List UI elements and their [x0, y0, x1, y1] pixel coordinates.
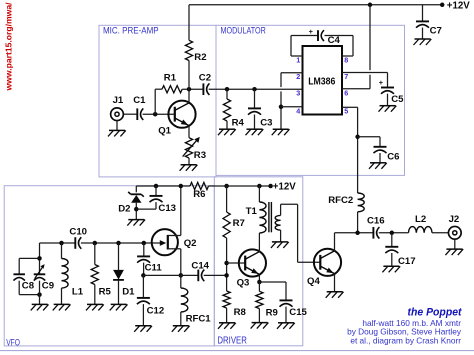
resistor R8 [223, 291, 230, 308]
label C13 [158, 203, 176, 214]
capacitor C4 (polarized) [318, 30, 324, 41]
ground Q4 [326, 292, 344, 298]
transistor Q2 (JFET) [152, 229, 178, 255]
wire C17 to ground [391, 253, 393, 266]
transformer T1 secondary [275, 215, 280, 230]
ground R3 [180, 165, 198, 171]
wire C9 branch drop [39, 243, 41, 274]
svg-text:Q3: Q3 [237, 278, 250, 289]
node C17 tap [390, 231, 395, 236]
capacitor C8 [13, 274, 25, 280]
ground R4 [218, 129, 236, 135]
resistor R2 [185, 40, 192, 60]
section label DRIVER [217, 336, 247, 347]
svg-text:R1: R1 [164, 73, 177, 84]
capacitor C15 [280, 300, 293, 306]
svg-text:C7: C7 [430, 25, 442, 36]
pin 8 number [344, 55, 348, 64]
ground J1 [108, 130, 126, 136]
wire Q4 collector up [334, 233, 336, 251]
node C13 rail tap [154, 184, 159, 189]
label R7 [233, 218, 245, 229]
label C12 [147, 305, 165, 316]
label D2 [118, 203, 130, 214]
ground RFC1 [172, 326, 190, 332]
svg-text:C4: C4 [328, 35, 341, 46]
svg-text:+: + [309, 27, 314, 36]
wire R8 to ground [226, 308, 228, 323]
wire R9 to ground [258, 309, 260, 323]
svg-text:D1: D1 [122, 287, 135, 298]
label C10 [69, 227, 87, 238]
inductor RFC1 [181, 288, 188, 312]
capacitor C6 [374, 147, 387, 153]
wire VFO top rail [136, 185, 190, 187]
capacitor C7 [416, 21, 429, 27]
svg-text:C13: C13 [158, 203, 176, 214]
wire T1 primary top stub [258, 186, 260, 202]
svg-text:R6: R6 [193, 189, 205, 200]
ground D2 [127, 220, 145, 226]
ground L1 [53, 304, 71, 310]
svg-text:+: + [379, 78, 384, 87]
capacitor C2 [203, 83, 209, 95]
svg-text:C16: C16 [367, 215, 385, 226]
pin 4 number [296, 106, 300, 115]
capacitor C11 [137, 256, 150, 262]
node +12V driver terminal [268, 184, 273, 189]
ground C15 [277, 323, 295, 329]
node C11/C12 tap [141, 273, 146, 278]
wire J1 to C1 [123, 113, 137, 115]
url text www.part15.org/mwa/ [4, 2, 14, 92]
svg-text:J2: J2 [449, 214, 460, 225]
capacitor C12 [137, 298, 150, 304]
ground C17 [382, 266, 400, 272]
svg-text:MODULATOR: MODULATOR [221, 25, 267, 35]
wire Q1 emitter to R3 [188, 126, 190, 138]
label L2 [415, 214, 426, 225]
wire rail R6 to +12V [209, 185, 271, 187]
wire C5 to ground [387, 94, 389, 106]
svg-text:C3: C3 [260, 117, 272, 128]
wire Q4 emitter to ground [334, 274, 336, 292]
transformer T1 core [269, 202, 272, 232]
wire pin2 stub [281, 72, 303, 74]
resistor R9 [256, 291, 263, 308]
wire pin5 stub [342, 106, 358, 108]
wire C9 to ground [39, 281, 41, 305]
ground pins 2 and 4 [272, 129, 290, 135]
wire T1 secondary top to Q4 base [281, 204, 321, 262]
node Q2 drain rail tap [179, 184, 184, 189]
node Q1 base junction [153, 112, 158, 117]
svg-text:RFC2: RFC2 [328, 195, 353, 206]
resistor R4 [223, 99, 230, 121]
svg-text:C15: C15 [289, 307, 307, 318]
pin 3 number [296, 89, 300, 98]
node C14 junction [224, 273, 229, 278]
svg-text:2: 2 [296, 72, 300, 81]
label C4 plus [309, 27, 314, 36]
svg-text:VFO: VFO [6, 337, 20, 348]
ground T1 secondary [271, 242, 289, 248]
svg-text:Q2: Q2 [184, 238, 197, 249]
transformer T1 primary [259, 202, 266, 233]
label C6 [387, 151, 399, 162]
resistor R1 [162, 86, 182, 93]
wire RFC2 bottom stub [357, 212, 359, 233]
wire C6 to ground [379, 153, 381, 163]
wire RFC1 top stub [180, 275, 182, 288]
wire T1 secondary bottom stub [280, 230, 282, 242]
label R6 [193, 189, 205, 200]
node D2/C13 ground junction [134, 207, 139, 212]
transistor Q1 [168, 101, 195, 128]
connector J1 [111, 108, 124, 121]
ground R9 [251, 323, 269, 329]
wire C13 bottom stub [155, 202, 157, 209]
wire pin4 stub [281, 106, 303, 108]
svg-text:C8: C8 [22, 281, 35, 292]
wire C3 top stub [254, 89, 256, 108]
resistor R6 [190, 182, 209, 189]
svg-text:C12: C12 [147, 305, 165, 316]
label +12V top [447, 1, 470, 12]
label RFC2 [328, 195, 353, 206]
svg-text:DRIVER: DRIVER [217, 336, 247, 347]
wire pin6 stub [342, 88, 370, 90]
label R4 [232, 117, 245, 128]
wire R7 top stub [226, 186, 228, 212]
wire C4 to pin8 [325, 36, 354, 57]
label R1 [164, 73, 177, 84]
node RFC2 output junction [355, 231, 360, 236]
svg-text:1: 1 [296, 55, 300, 64]
capacitor C16 [373, 227, 379, 239]
svg-text:J1: J1 [113, 95, 124, 106]
wire RFC1 to ground [180, 312, 182, 326]
ground R8 [218, 323, 236, 329]
wire L1 to ground [61, 288, 63, 304]
label C5 plus [379, 78, 384, 87]
wire C17 top stub [391, 233, 393, 247]
wire C11 top stub [143, 243, 145, 256]
label C16 [367, 215, 385, 226]
section box MIC. PRE-AMP [99, 25, 216, 177]
wire pin2/pin4 ground drop (hops pin3 wire) [280, 73, 282, 129]
wire Q2 source stub [168, 248, 181, 250]
node D2 rail corner [135, 186, 137, 192]
label C14 [191, 261, 209, 272]
wire C8 top branch [19, 258, 39, 274]
node pin4 junction [279, 105, 284, 110]
svg-text:C14: C14 [191, 261, 209, 272]
label J1 [113, 95, 124, 106]
svg-text:Q1: Q1 [158, 125, 171, 136]
svg-text:C5: C5 [391, 94, 404, 105]
capacitor C5 (polarized) [381, 88, 394, 94]
svg-text:C17: C17 [398, 256, 416, 267]
wire +12V top rail [189, 4, 442, 6]
svg-text:T1: T1 [246, 206, 258, 217]
zener diode D2 [128, 192, 144, 203]
ground C12 [134, 326, 152, 332]
label +12V driver [273, 182, 296, 193]
label D1 [122, 287, 135, 298]
label Q3 [237, 278, 250, 289]
connector J2 [448, 226, 461, 239]
section box DRIVER [214, 177, 302, 346]
node +12V feed to pin6 [368, 3, 373, 8]
label Q4 [307, 276, 320, 287]
wire C12 top stub [142, 275, 144, 297]
svg-text:L1: L1 [72, 287, 84, 298]
label T1 [246, 206, 258, 217]
label R2 [194, 52, 206, 63]
svg-text:et al., diagram by Crash Knorr: et al., diagram by Crash Knorr [350, 335, 461, 345]
capacitor C1 [137, 108, 143, 120]
svg-text:the Poppet: the Poppet [408, 307, 463, 319]
wire C15 top stub [285, 282, 287, 300]
node R2/R1/C2 junction [187, 87, 192, 92]
svg-text:R7: R7 [233, 218, 245, 229]
ground D1 [110, 304, 128, 310]
svg-text:LM386: LM386 [308, 77, 335, 88]
wire R1 to R2 node [182, 88, 203, 90]
subtitle line 2 [347, 327, 462, 337]
resistor R7 [223, 212, 230, 238]
wire C13 top stub [155, 186, 157, 195]
wire C8 bottom branch [19, 281, 39, 295]
ground R5 [86, 304, 104, 310]
wire +12V drop to LM386 pin 6 (hops pin7 wire) [369, 5, 371, 89]
label Q2 [184, 238, 197, 249]
wire J1 ground stem [116, 121, 118, 131]
label RFC1 [186, 314, 212, 325]
svg-text:R4: R4 [232, 117, 245, 128]
label C8 [22, 281, 35, 292]
ground C8 C9 [31, 304, 49, 310]
wire VFO rail [40, 242, 76, 244]
wire R4 to ground [226, 121, 228, 129]
wire C14 to driver [204, 274, 227, 276]
node R5 top [93, 241, 98, 246]
transistor Q4 [314, 249, 341, 276]
svg-text:D2: D2 [118, 203, 130, 214]
resistor R3 (variable) [185, 138, 192, 158]
svg-text:R3: R3 [194, 150, 206, 161]
label Q1 [158, 125, 171, 136]
label R9 [266, 307, 278, 318]
svg-text:Q4: Q4 [307, 276, 320, 287]
svg-text:C11: C11 [145, 262, 163, 273]
node T1 rail tap [257, 184, 262, 189]
title the Poppet [408, 307, 463, 319]
wire R3 to ground [188, 158, 190, 165]
label C9 [42, 281, 54, 292]
inductor L1 [62, 259, 69, 289]
wire C11 to tap [143, 263, 145, 276]
section label MODULATOR [221, 25, 267, 35]
node C3 junction [252, 87, 257, 92]
svg-text:RFC1: RFC1 [186, 314, 212, 325]
page bottom rule [0, 350, 474, 352]
label R8 [234, 307, 247, 318]
svg-text:+12V: +12V [273, 182, 296, 193]
ground C5 [379, 106, 397, 112]
svg-text:C2: C2 [199, 73, 211, 84]
inductor RFC2 [358, 193, 365, 212]
label L1 [72, 287, 84, 298]
wire C15 to ground [285, 307, 287, 323]
wire Q3 emitter down [258, 275, 260, 282]
section label VFO [6, 337, 20, 348]
label C1 [133, 95, 146, 106]
pin 5 number [344, 106, 348, 115]
svg-text:C6: C6 [387, 151, 399, 162]
wire J2 ground stem [454, 239, 456, 249]
svg-text:R2: R2 [194, 52, 206, 63]
section label MIC. PRE-AMP [103, 25, 159, 35]
wire pin1 to C4 [291, 36, 318, 57]
wire R2 top stub [188, 5, 190, 41]
wire emitter to C15 [259, 281, 286, 283]
inductor L2 [409, 227, 432, 233]
node D1 top [116, 241, 121, 246]
diode D1 [113, 270, 124, 280]
wire R4 top stub [226, 89, 228, 99]
wire L2 to J2 [432, 232, 449, 234]
label C2 [199, 73, 211, 84]
ground C3 [246, 129, 264, 135]
wire R5 to ground [94, 285, 96, 305]
node Q3 base junction [224, 261, 229, 266]
pin 7 number [344, 72, 348, 81]
wire Q2 source down [180, 249, 182, 276]
label LM386 [308, 77, 335, 88]
node L1 top [59, 241, 64, 246]
wire source line left to C11/C12 tap [143, 274, 198, 276]
wire Q3 base wire [227, 262, 246, 264]
wire D2 to ground node [135, 203, 137, 220]
wire VFO rail right of C10 [81, 242, 164, 244]
svg-text:L2: L2 [415, 214, 426, 225]
wire D1 to ground [118, 280, 120, 304]
label C5 [391, 94, 404, 105]
wire C16 to L2 [379, 232, 409, 234]
section box VFO [4, 186, 214, 346]
op-amp U1 LM386 body [303, 46, 343, 115]
wire L1 top stub [61, 243, 63, 259]
wire C7 top stub [422, 5, 424, 21]
wire D1 top stub [118, 243, 120, 270]
pin 2 number [296, 72, 300, 81]
capacitor C14 [198, 270, 204, 282]
wire R5 top stub [94, 243, 96, 265]
svg-text:R9: R9 [266, 307, 278, 318]
wire Q2 drain up to rail [180, 186, 182, 236]
svg-text:C10: C10 [69, 227, 87, 238]
svg-text:C1: C1 [133, 95, 146, 106]
svg-text:C9: C9 [42, 281, 54, 292]
capacitor C13 [150, 196, 163, 202]
wire C6 branch [358, 137, 380, 147]
svg-text:MIC. PRE-AMP: MIC. PRE-AMP [103, 25, 159, 35]
resistor R5 [91, 265, 98, 285]
wire C3 to ground [254, 115, 256, 129]
label C7 [430, 25, 442, 36]
wire C13 bottom link [136, 208, 156, 210]
label R5 [99, 287, 112, 298]
svg-text:R8: R8 [234, 307, 247, 318]
svg-text:4: 4 [296, 106, 300, 115]
capacitor C9 (trimmer) [34, 274, 46, 280]
node Q2 source junction [179, 273, 184, 278]
label C15 [289, 307, 307, 318]
section box MODULATOR [216, 25, 405, 175]
wire C1 to Q1 base [143, 113, 175, 115]
wire C2 to LM386 pin3 [209, 88, 302, 90]
wire Q3 collector to T1 [258, 233, 260, 252]
wire C7 bottom stub [422, 28, 424, 39]
capacitor C10 [75, 237, 81, 249]
ground J2 [445, 249, 463, 255]
wire output line to C16 [335, 232, 374, 234]
node C6 tap [355, 135, 360, 140]
wire pin7 to C5 [342, 73, 388, 88]
node C11 top [142, 241, 147, 246]
svg-text:7: 7 [344, 72, 348, 81]
wire pin5 drop to RFC2 [357, 107, 359, 193]
wire R9 top stub [258, 282, 260, 291]
label C4 [328, 35, 341, 46]
node R7 rail tap [224, 184, 229, 189]
wire R7 to R8 [226, 238, 228, 291]
svg-text:8: 8 [344, 55, 348, 64]
pin 1 number [296, 55, 300, 64]
arrow R3 wiper [183, 137, 200, 157]
subtitle line 1 [362, 318, 461, 328]
label J2 [449, 214, 460, 225]
wire C12 to ground [142, 304, 144, 326]
node C8 bottom tap [37, 292, 42, 297]
svg-text:3: 3 [296, 89, 300, 98]
node +12V terminal top [440, 3, 445, 8]
node C8 top tap [37, 256, 42, 261]
capacitor C17 [385, 247, 398, 253]
wire R1 left stub [155, 88, 162, 90]
wire R2 to Q1 collector [188, 61, 190, 104]
wire base junction up to R1 [154, 89, 156, 114]
transistor Q3 [239, 249, 266, 276]
label C17 [398, 256, 416, 267]
pin 6 number [344, 89, 348, 98]
svg-text:www.part15.org/mwa/: www.part15.org/mwa/ [4, 2, 14, 92]
ground C7 [414, 39, 432, 45]
label C3 [260, 117, 272, 128]
svg-text:R5: R5 [99, 287, 112, 298]
ground C6 [369, 163, 387, 169]
label C11 [145, 262, 163, 273]
arrow C9 trimmer [35, 264, 45, 279]
subtitle line 3 [350, 335, 461, 345]
node R4 junction [225, 87, 230, 92]
capacitor C3 [248, 108, 261, 114]
svg-text:+12V: +12V [447, 1, 470, 12]
label R3 [194, 150, 206, 161]
wire Q2 drain stub [168, 235, 181, 237]
